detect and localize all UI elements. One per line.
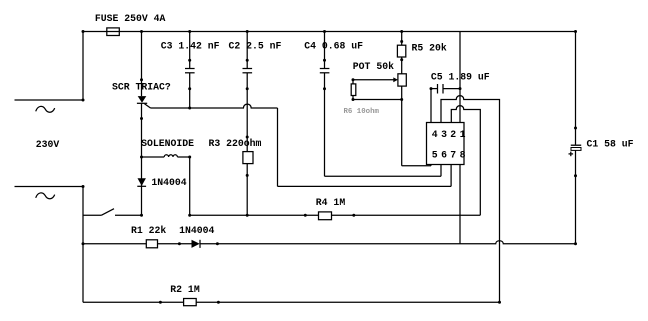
resistor R6 bottom lead	[352, 96, 354, 100]
svg-text:C4 0.68 uF: C4 0.68 uF	[304, 40, 363, 51]
node: R5 leads	[400, 40, 403, 43]
node: neutral to R1	[82, 242, 85, 245]
svg-text:230V: 230V	[36, 139, 60, 150]
wire: pin 5 riser	[430, 165, 432, 166]
fuse F1	[107, 28, 120, 36]
capacitor C4	[320, 32, 330, 177]
node: top bus junctions	[82, 30, 85, 33]
resistor R3	[243, 152, 253, 164]
capacitor C2	[243, 32, 253, 152]
IC U1 body	[427, 123, 465, 165]
svg-text:R2 1M: R2 1M	[170, 284, 200, 295]
IC U1 pin numbers 4 3 2 1	[432, 129, 466, 140]
node: C4 leads	[323, 59, 326, 62]
wire: pin 2 net with hop over pin1 riser	[451, 106, 480, 216]
node: AC terminals	[82, 99, 85, 102]
svg-text:5: 5	[432, 150, 438, 161]
diode D2 1N4004	[192, 240, 201, 248]
node dots	[82, 30, 578, 304]
svg-text:POT 50k: POT 50k	[353, 61, 394, 72]
wire: pot bottom lead	[401, 86, 403, 166]
solenoid L1 coil	[142, 155, 190, 157]
wire: R3 bottom lead	[246, 164, 248, 216]
diode D1 1N4004	[137, 178, 146, 186]
node: C1 leads	[574, 127, 577, 130]
wire: gate net vertical down	[277, 108, 279, 186]
wire: neutral drop on left	[82, 187, 84, 303]
node: R1/D2 leads	[178, 242, 181, 245]
wire: top bus	[83, 31, 576, 33]
svg-text:2: 2	[450, 129, 456, 140]
svg-text:C5 1.89 uF: C5 1.89 uF	[431, 72, 490, 83]
IC U1 pin numbers 5 6 7 8	[432, 150, 466, 161]
wire: live riser from AC top terminal	[82, 32, 84, 101]
svg-text:R3 220ohm: R3 220ohm	[209, 138, 262, 149]
svg-text:R5 20k: R5 20k	[412, 43, 447, 54]
wire: pin 6 riser	[440, 165, 442, 177]
wire: R2 net	[83, 301, 500, 303]
capacitor C3	[185, 32, 195, 109]
wire: R1 to D2	[158, 243, 192, 245]
wire: triac branch lower	[141, 103, 143, 215]
node: C2/R3 leads	[246, 59, 249, 62]
wire: pin 1 net from top bus	[459, 32, 461, 123]
svg-text:C3 1.42 nF: C3 1.42 nF	[161, 40, 220, 51]
wire: AC live top terminal	[15, 99, 84, 101]
svg-text:R4 1M: R4 1M	[316, 197, 346, 208]
node: C5 leads	[430, 87, 433, 90]
node: pot bottom junction	[400, 98, 403, 101]
svg-text:3: 3	[441, 129, 447, 140]
resistor R6	[351, 84, 356, 96]
svg-text:R6 10ohm: R6 10ohm	[344, 108, 380, 116]
resistor R4	[319, 212, 332, 220]
svg-text:6: 6	[441, 150, 447, 161]
svg-text:SOLENOIDE: SOLENOIDE	[141, 138, 194, 149]
resistor R5	[397, 45, 405, 57]
svg-text:C2 2.5 nF: C2 2.5 nF	[229, 40, 282, 51]
capacitor C1 top lead	[575, 32, 577, 145]
node: R2 leads	[159, 301, 162, 304]
wire: AC neutral bottom terminal	[15, 186, 84, 188]
resistor R1	[146, 240, 157, 248]
potentiometer wiper arrow	[353, 77, 398, 82]
node: solenoid right	[188, 156, 191, 159]
capacitor C5	[431, 84, 460, 94]
svg-text:1N4004: 1N4004	[151, 177, 186, 188]
capacitor C1 bottom lead	[575, 151, 577, 244]
svg-text:8: 8	[460, 150, 466, 161]
potentiometer POT 50k body	[398, 74, 406, 86]
wire: R5 to pot	[401, 57, 403, 74]
svg-text:FUSE 250V 4A: FUSE 250V 4A	[95, 13, 166, 24]
svg-text:7: 7	[450, 150, 456, 161]
node: triac branch	[140, 78, 143, 81]
svg-text:SCR TRIAC?: SCR TRIAC?	[112, 82, 171, 93]
resistor R2	[184, 299, 197, 306]
wire: pin 4 riser	[430, 89, 432, 123]
wire: solenoid return drop	[189, 157, 191, 215]
wire: pin 3 net with hop over pin1 riser	[441, 96, 500, 303]
svg-text:C1 58 uF: C1 58 uF	[587, 139, 634, 150]
wire: pin 8 drop	[459, 165, 461, 244]
SCR/triac Q1	[137, 96, 151, 108]
wire: gate net horizontal with hop over C2 lead	[151, 104, 278, 108]
node: R6 leads	[352, 78, 355, 81]
wire: pin 7 riser	[450, 165, 452, 187]
wire: R4 line A	[190, 214, 481, 216]
node: R4 leads	[304, 214, 307, 217]
node: C3 leads	[188, 59, 191, 62]
switch S1 blade and leads	[83, 209, 142, 216]
wire: R6 to pot bottom	[353, 99, 402, 101]
capacitor C1 electrolytic	[569, 145, 582, 156]
AC source bottom sine symbol	[36, 193, 55, 199]
node: C1 bottom junction	[574, 242, 577, 245]
wire: line B right with hop over pin3 net drop	[200, 241, 576, 244]
resistor R6 top lead	[352, 80, 354, 84]
AC source top sine symbol	[36, 106, 55, 112]
wire: triac branch upper	[141, 32, 143, 97]
svg-text:1N4004: 1N4004	[179, 225, 214, 236]
svg-text:4: 4	[432, 129, 438, 140]
svg-text:1: 1	[460, 129, 466, 140]
wire: C4 to pin 6	[325, 175, 442, 177]
wire: R1 line B left	[83, 243, 146, 245]
wire: R5 top lead	[401, 32, 403, 46]
wire: gate net to pin 7	[278, 185, 452, 187]
wire: pin 5 horizontal	[402, 165, 431, 167]
svg-text:R1 22k: R1 22k	[131, 225, 166, 236]
